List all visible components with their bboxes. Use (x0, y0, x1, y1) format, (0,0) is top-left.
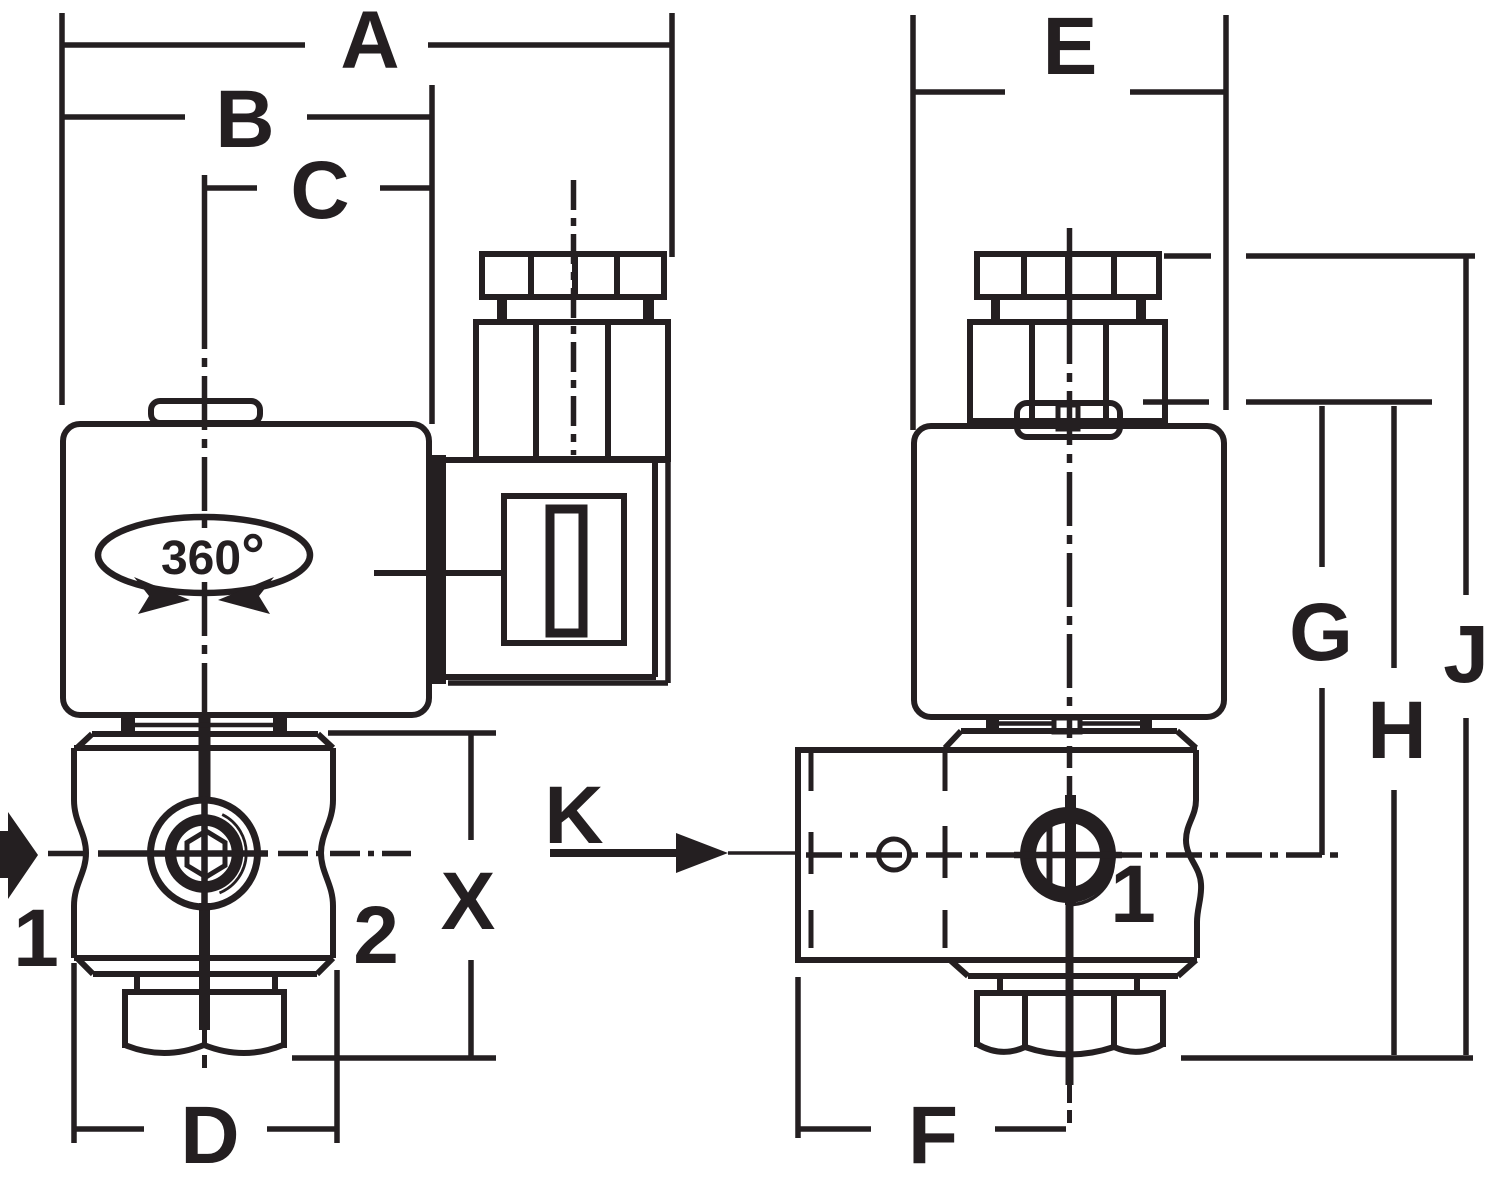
adapter center box (1054, 718, 1080, 732)
svg-text:2: 2 (353, 890, 399, 981)
bracket hidden edge dashed right (943, 753, 948, 948)
svg-text:1: 1 (1110, 849, 1156, 940)
K arrow thin line (728, 851, 797, 855)
right view horizontal centerline (806, 852, 1339, 858)
tab notch (1058, 405, 1078, 429)
rotation arrowhead right (218, 577, 274, 614)
dimension A line (62, 42, 670, 48)
adapter plate line (135, 723, 273, 728)
dimension D line (75, 1126, 336, 1132)
right port seat thick ring (1028, 815, 1108, 895)
dimension X top tick (328, 730, 496, 736)
J top reference line (1164, 253, 1475, 259)
left view horizontal centerline (48, 851, 88, 857)
cable gland cap (left) (482, 254, 664, 297)
dimension B extension line right (429, 85, 435, 424)
dimension E extension line left (910, 15, 916, 430)
K arrowhead (676, 833, 728, 873)
dimension C line (205, 185, 430, 191)
gland bottom rim line (967, 418, 1168, 424)
valve body bottom and bottom flange (left view) (74, 955, 333, 961)
svg-text:A: A (340, 0, 399, 86)
adapter plate lines (right view) (999, 721, 1140, 726)
port counterbore outer circle (151, 800, 258, 907)
dimension D extension lines (74, 963, 337, 1143)
connector housing shadow lines (448, 459, 668, 683)
right view vertical centerline (1067, 228, 1073, 310)
svg-text:K: K (544, 770, 603, 861)
svg-text:J: J (1443, 609, 1489, 700)
connector centerline (571, 180, 577, 455)
gland neck posts (left) (497, 295, 507, 324)
flow arrow into port 1 (0, 812, 38, 899)
dimension F line (800, 1126, 1066, 1132)
gland neck posts (right) (991, 295, 1000, 324)
hex nut (right view) (977, 993, 1163, 1047)
bracket hole (879, 839, 910, 870)
coil body (right view) (914, 426, 1224, 717)
right body top flange (961, 728, 1177, 734)
valve body left side with waist (74, 748, 86, 958)
valve body top flange (left view) (92, 731, 318, 737)
connector slot (550, 509, 583, 633)
cable gland cap (right) (977, 254, 1159, 297)
degree symbol (246, 536, 260, 550)
right port chord line (1047, 823, 1053, 888)
svg-text:C: C (290, 145, 349, 236)
dimension B line (62, 114, 430, 120)
bracket hidden edge dashed left (809, 753, 814, 948)
360 rotation ellipse (98, 517, 310, 593)
connector window (504, 496, 624, 643)
dimension E extension line right (1223, 15, 1229, 410)
svg-text:F: F (908, 1090, 958, 1179)
K arrow line (550, 849, 676, 857)
coil-to-body adapter stubs (left view) (121, 716, 135, 732)
mounting bracket outline (795, 750, 801, 960)
port thread thin arc (220, 815, 247, 893)
valve body right side with waist (321, 748, 333, 958)
dimension X line (468, 733, 474, 1058)
H/J bottom reference line (1181, 1055, 1473, 1061)
coil top tab (left view) (151, 401, 260, 423)
svg-text:360: 360 (161, 532, 241, 585)
dimension E line (913, 89, 1225, 95)
dimension J line (1463, 258, 1469, 1055)
coil body (left view) (63, 424, 429, 715)
svg-text:H: H (1367, 685, 1426, 776)
hex nut neck (left view) (137, 974, 275, 991)
connector junction black bar (427, 455, 446, 684)
gland body (left) (476, 322, 668, 459)
left view vertical centerline (202, 175, 208, 295)
dimension A extension line left (59, 13, 65, 405)
dimension F extension line (795, 977, 801, 1138)
hex nut (left view) (125, 992, 284, 1048)
connector housing (437, 457, 668, 463)
dimension A extension line right (669, 13, 675, 257)
dimension X bottom tick (292, 1055, 496, 1061)
lead line from coil to connector window (374, 570, 504, 576)
svg-text:G: G (1289, 587, 1353, 678)
svg-text:X: X (441, 856, 496, 947)
right bottom flange (950, 960, 1196, 976)
coil top tab (right view) (1017, 403, 1120, 437)
right body break edge (wavy) (1186, 750, 1201, 958)
gland body (right) (970, 322, 1165, 421)
G/H top reference line (1143, 399, 1432, 405)
right port thread thin arc (1073, 841, 1113, 905)
dimension H line (1391, 406, 1397, 1055)
hex nut neck (right view) (1000, 976, 1137, 992)
rotation arrowhead left (134, 577, 190, 614)
hex socket (187, 831, 225, 877)
svg-text:D: D (180, 1090, 239, 1179)
dimension G line (1319, 406, 1325, 855)
port seat thick ring (171, 820, 238, 887)
coil-to-body adapter stubs (right view) (986, 716, 999, 733)
svg-text:E: E (1043, 1, 1098, 92)
svg-text:B: B (215, 74, 274, 165)
svg-text:1: 1 (13, 893, 59, 984)
